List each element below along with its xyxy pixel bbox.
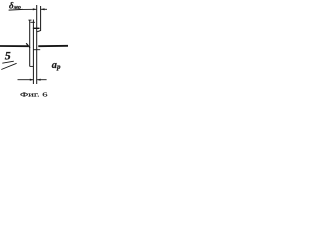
svg-text:δмо: δмо bbox=[9, 1, 21, 11]
svg-text:5: 5 bbox=[5, 49, 11, 63]
svg-text:ар: ар bbox=[52, 60, 61, 71]
svg-text:Фиг. 6: Фиг. 6 bbox=[20, 92, 49, 99]
